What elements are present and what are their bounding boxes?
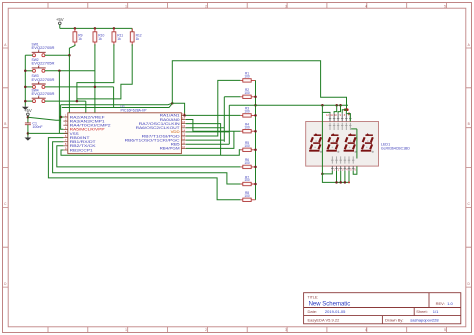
U1 pin 17 RA0/AN0 [181, 119, 185, 121]
wire to pin9 [342, 110, 346, 114]
wire pin3 down [340, 171, 342, 183]
node rail-R9 [74, 27, 77, 30]
wire +5V stem [59, 25, 61, 29]
7-seg digit [349, 133, 352, 135]
svg-text:5: 5 [444, 328, 446, 332]
U1 pin 10 RB4/PGM [181, 147, 185, 149]
svg-text:16: 16 [182, 120, 185, 124]
title block [304, 293, 461, 324]
display LED1 GLR0364CBC1BD (4-digit 7-seg) [306, 122, 379, 167]
resistor R8 [240, 199, 255, 201]
svg-text:EVQ22705R: EVQ22705R [32, 62, 55, 66]
wire RB5 run [186, 143, 230, 145]
svg-text:2: 2 [205, 328, 207, 332]
wire SW1 descent [68, 55, 70, 113]
svg-text:1k: 1k [117, 37, 121, 41]
wire R2 feed riser [223, 97, 225, 142]
svg-text:EVQ22705R: EVQ22705R [32, 46, 55, 50]
node SW4 net [76, 100, 79, 103]
svg-text:B: B [468, 122, 470, 126]
wire RB4 riser [186, 131, 234, 148]
junction [254, 183, 257, 186]
resistor R1 [240, 79, 255, 81]
svg-text:13: 13 [182, 132, 185, 136]
wire R10 down [94, 44, 96, 113]
junction [24, 100, 27, 103]
wire run B [62, 104, 173, 108]
wire SW3 row [45, 86, 114, 88]
wire to pin12 [322, 105, 330, 113]
7-seg digit [366, 133, 369, 135]
junction [348, 113, 350, 115]
wire to R2 [224, 96, 240, 98]
svg-text:100: 100 [244, 125, 250, 129]
capacitor C1 100nF [25, 123, 31, 125]
wire SW2 descent [58, 71, 60, 134]
resistor R2 [240, 96, 255, 98]
junction [254, 114, 257, 117]
wire bus stub [25, 86, 32, 88]
wire pin4 down [344, 171, 346, 183]
wire SW4 descent [85, 101, 87, 113]
U1 pin 2 RA3/AN3/CMP1 [63, 120, 67, 122]
resistor R10 [94, 28, 96, 45]
wire to pin8 [345, 110, 347, 114]
wire pin7 into box [349, 114, 351, 122]
svg-text:1: 1 [125, 4, 127, 8]
svg-text:1k: 1k [78, 37, 82, 41]
wire VDD riser [228, 105, 230, 144]
svg-text:2019-01-05: 2019-01-05 [325, 309, 346, 314]
junction [254, 166, 257, 169]
wire SW4 row [45, 100, 86, 102]
U1 pin 11 RB5 [181, 143, 185, 145]
junction [24, 86, 27, 89]
junction [321, 104, 324, 107]
svg-text:EasyEDA V5.9.22: EasyEDA V5.9.22 [308, 317, 341, 322]
svg-text:Date:: Date: [308, 309, 318, 314]
junction [254, 96, 257, 99]
U1 pin 3 RA4/T0CKI/CMP2 [63, 124, 67, 126]
svg-text:B: B [4, 122, 6, 126]
wire R9 to SW1 [69, 44, 75, 55]
display inner top pin labels [329, 123, 352, 130]
svg-text:5: 5 [444, 4, 446, 8]
junction [335, 104, 338, 107]
resistor R6 [240, 166, 255, 168]
resistor R5 [240, 149, 255, 151]
wire +5V main loop [172, 61, 346, 110]
svg-text:1k: 1k [136, 37, 140, 41]
U1 pin 16 RA7/OSC1/CLKIN [181, 123, 185, 125]
svg-text:100: 100 [244, 178, 250, 182]
wire to pin10 [338, 105, 340, 113]
wire RA2 stub link [61, 116, 63, 118]
svg-text:100: 100 [244, 110, 250, 114]
svg-text:Drawn By:: Drawn By: [385, 317, 403, 322]
svg-text:REV:: REV: [436, 301, 445, 306]
U1 pin 9 RB3/CCP1 [63, 149, 67, 151]
U1 pin 8 RB2/TX/CK [63, 145, 67, 147]
wire through wire left [321, 112, 323, 173]
node rail-R11 [113, 27, 116, 30]
U1 pin 1 RA2/AN2/VREF [63, 116, 67, 118]
svg-text:1k: 1k [98, 37, 102, 41]
svg-text:100: 100 [244, 161, 250, 165]
wire RA7 descent [186, 124, 221, 156]
node RA2 tap [60, 116, 63, 119]
wire C1 bottom [27, 125, 29, 137]
junction [339, 104, 342, 107]
svg-text:GLR0364CBC1BD: GLR0364CBC1BD [381, 147, 410, 151]
U1 pin 18 RA1/AN1 [181, 114, 185, 116]
wire bottom bus [322, 171, 349, 183]
U1 pin 15 RA6/OSC2/CLKOUT [181, 127, 185, 129]
junction [335, 181, 338, 184]
wire RB3 to R5 [61, 150, 240, 156]
7-seg digit [332, 133, 335, 135]
node bus tap [254, 104, 257, 107]
wire bus stub [25, 54, 32, 56]
svg-text:EVQ22705R: EVQ22705R [32, 78, 55, 82]
wire pin6 jog [353, 166, 357, 174]
display bottom pins 1-6 [331, 166, 333, 171]
wire through stub [351, 128, 357, 130]
wire R12 staircase [77, 44, 132, 99]
wire RB6 run [186, 139, 225, 141]
junction [254, 149, 257, 152]
svg-text:3: 3 [285, 4, 287, 8]
svg-text:1.0: 1.0 [447, 301, 453, 306]
wire rail to R12 [131, 28, 133, 31]
svg-text:+5V: +5V [24, 108, 32, 113]
wire R11 jog down [77, 44, 114, 101]
svg-text:EVQ22705R: EVQ22705R [32, 92, 55, 96]
wire +5V to MCLR [61, 105, 64, 130]
wire bus stub [25, 100, 32, 102]
node bottom node [321, 173, 324, 176]
junction [24, 70, 27, 73]
wire RB1 to R7 [53, 142, 241, 184]
junction [348, 181, 350, 183]
node RA1 +5V tap [183, 114, 186, 117]
svg-text:4: 4 [365, 4, 367, 8]
wire jog to pin7 [346, 112, 350, 114]
wire pin2 down [336, 171, 338, 183]
svg-text:4: 4 [365, 328, 367, 332]
wire +5V rail [60, 27, 132, 29]
node SW2 net [58, 70, 61, 73]
resistor R7 [240, 183, 255, 185]
svg-text:12: 12 [182, 137, 185, 141]
svg-text:2: 2 [205, 4, 207, 8]
svg-text:RB4/PGM: RB4/PGM [160, 147, 180, 151]
svg-text:3: 3 [285, 328, 287, 332]
svg-text:PIC16F628A-I/P: PIC16F628A-I/P [121, 108, 148, 112]
U1 pin 13 RB7/T1OSI/PGD [181, 135, 185, 137]
wire SW2 row [45, 70, 95, 72]
wire display feed bus [229, 104, 348, 106]
ground [27, 136, 29, 139]
wire +5V to RA1 [172, 103, 184, 115]
wire +5V run A [61, 103, 173, 105]
junction [346, 108, 349, 111]
U1 pin 5 VSS [63, 133, 67, 135]
wire to VSS pin [28, 132, 68, 134]
svg-text:14: 14 [182, 128, 185, 132]
node SW3-R10 [94, 86, 97, 89]
resistor R12 [131, 28, 133, 45]
resistor R3 [240, 114, 255, 116]
node VSS net [27, 132, 30, 135]
svg-text:TITLE:: TITLE: [308, 295, 319, 299]
wire SW1 row [45, 54, 70, 56]
svg-text:100nF: 100nF [32, 125, 43, 129]
node +5V anode node [344, 108, 347, 111]
svg-text:10: 10 [182, 145, 185, 149]
wire switch gnd bus [24, 55, 26, 106]
svg-text:100: 100 [244, 75, 250, 79]
op-amp U1 PIC16F628A-I/P (MCU) [68, 113, 182, 154]
wire RA0 to R4 [186, 120, 241, 132]
node +5V node [171, 102, 174, 105]
svg-text:New Schematic: New Schematic [309, 301, 351, 307]
wire RB2 to R6 [57, 146, 241, 167]
U1 pin 14 VDD [181, 131, 185, 133]
7-seg digit [314, 133, 317, 135]
svg-text:1/1: 1/1 [433, 309, 439, 314]
wire RB0 to R8 [48, 138, 240, 200]
wire MCLR pullup slope [28, 117, 61, 120]
node rail-R10 [94, 27, 97, 30]
U1 pin 6 RB0/INT [63, 137, 67, 139]
wire through wire right [356, 129, 358, 159]
U1 pin 4 RA5/MCLR/VPP [63, 128, 67, 130]
U1 pin 7 RB1/RX/DT [63, 141, 67, 143]
wire VDD run [186, 131, 230, 133]
svg-text:Sheet:: Sheet: [416, 309, 428, 314]
resistor R4 [240, 130, 255, 132]
wire to pin11 [334, 105, 337, 113]
svg-text:15: 15 [182, 124, 185, 128]
svg-text:1: 1 [125, 328, 127, 332]
wire SW3 descent [113, 87, 115, 108]
wire RA6 run [186, 127, 225, 129]
junction [254, 130, 257, 133]
svg-text:RB3/CCP1: RB3/CCP1 [70, 148, 93, 152]
wire bus stub [25, 70, 32, 72]
junction [344, 181, 347, 184]
wire +5V to C1 [27, 116, 29, 123]
wire pin5 down [348, 171, 350, 183]
svg-text:sashapopov228: sashapopov228 [410, 317, 439, 322]
ground [24, 105, 26, 108]
node SW1 net [68, 54, 71, 57]
junction [339, 181, 342, 184]
svg-text:100: 100 [244, 194, 250, 198]
resistor R9 [74, 28, 76, 45]
node C1 top net [27, 116, 30, 119]
resistor R11 [113, 28, 115, 45]
svg-text:100: 100 [244, 91, 250, 95]
wire RB7 to R1 [186, 80, 241, 136]
U1 pin 12 RB6/T1OSO/T1CKI/PGC [181, 139, 185, 141]
svg-text:+5V: +5V [56, 17, 64, 22]
wire segment bus [255, 80, 257, 199]
wire RA1 to R3 [186, 114, 241, 116]
display top pins 12-7 [329, 113, 331, 121]
svg-text:100: 100 [244, 144, 250, 148]
